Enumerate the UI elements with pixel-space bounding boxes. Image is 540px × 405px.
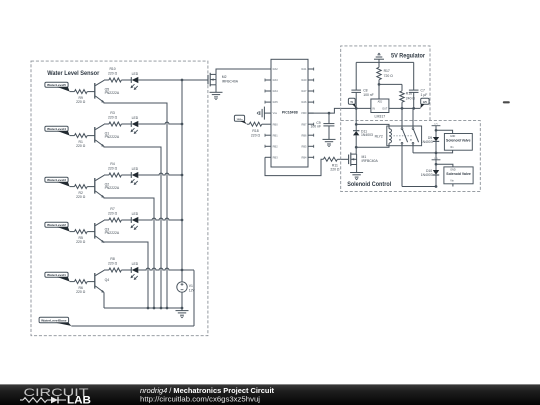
svg-text:Water Level Sensor: Water Level Sensor: [47, 70, 100, 77]
svg-text:220 Ω: 220 Ω: [76, 195, 86, 199]
svg-text:RB3: RB3: [273, 155, 279, 159]
svg-text:WaterLevelBase: WaterLevelBase: [41, 318, 67, 322]
svg-text:220 Ω: 220 Ω: [108, 71, 118, 75]
svg-text:WaterLevel2: WaterLevel2: [47, 223, 66, 227]
svg-text:220 Ω: 220 Ω: [108, 115, 118, 119]
svg-text:220 Ω: 220 Ω: [76, 144, 86, 148]
svg-text:R17: R17: [384, 69, 390, 73]
svg-text:PN2222A: PN2222A: [105, 231, 120, 235]
svg-text:RA2: RA2: [273, 67, 279, 71]
svg-text:RLY2: RLY2: [375, 134, 383, 138]
svg-text:IRFBC40A: IRFBC40A: [362, 159, 379, 163]
svg-text:RB1: RB1: [273, 133, 279, 137]
svg-text:RA4: RA4: [273, 89, 279, 93]
svg-text:WaterLevel5: WaterLevel5: [47, 83, 66, 87]
svg-text:RB4: RB4: [301, 155, 307, 159]
svg-text:220 Ω: 220 Ω: [108, 166, 118, 170]
svg-text:100 nF: 100 nF: [363, 93, 374, 97]
svg-text:LM317: LM317: [375, 114, 386, 118]
svg-text:R4: R4: [110, 162, 114, 166]
svg-text:1N4003: 1N4003: [361, 133, 373, 137]
svg-text:RB7: RB7: [301, 122, 307, 126]
svg-text:12Vin: 12Vin: [237, 119, 244, 121]
svg-text:LED: LED: [132, 167, 139, 171]
svg-text:OUT: OUT: [382, 108, 388, 111]
svg-text:http://circuitlab.com/cx6gs3xz: http://circuitlab.com/cx6gs3xz5hvuj: [140, 395, 260, 404]
svg-text:PIC16F88: PIC16F88: [282, 111, 298, 115]
svg-text:RB6: RB6: [301, 133, 307, 137]
svg-text:R8: R8: [110, 257, 114, 261]
svg-text:220 Ω: 220 Ω: [108, 211, 118, 215]
svg-text:720 Ω: 720 Ω: [384, 74, 394, 78]
svg-text:R10: R10: [109, 67, 115, 71]
svg-text:12V: 12V: [423, 101, 428, 104]
svg-text:1N4003: 1N4003: [421, 140, 433, 144]
svg-text:IN: IN: [373, 108, 376, 111]
svg-text:RB2: RB2: [273, 144, 279, 148]
svg-text:PN2222A: PN2222A: [105, 186, 120, 190]
svg-text:WaterLevel3: WaterLevel3: [47, 178, 66, 182]
svg-text:220 Ω: 220 Ω: [251, 133, 261, 137]
svg-text:LED: LED: [132, 262, 139, 266]
svg-text:RB5: RB5: [301, 144, 307, 148]
svg-text:220 Ω: 220 Ω: [108, 261, 118, 265]
svg-text:WaterLevel1: WaterLevel1: [47, 273, 66, 277]
svg-text:100 nF: 100 nF: [311, 125, 322, 129]
svg-text:nrodrig4 / Mechatronics Projec: nrodrig4 / Mechatronics Project Circuit: [140, 386, 275, 395]
svg-text:5V: 5V: [351, 101, 354, 104]
svg-text:RA6: RA6: [301, 100, 307, 104]
svg-text:1 µF: 1 µF: [421, 93, 428, 97]
svg-text:1N4003: 1N4003: [421, 173, 433, 177]
svg-text:LED: LED: [132, 72, 139, 76]
svg-text:Solenoid Valve: Solenoid Valve: [446, 139, 471, 143]
svg-text:RA3: RA3: [273, 78, 279, 82]
svg-text:R7: R7: [110, 207, 114, 211]
svg-text:220 Ω: 220 Ω: [76, 100, 86, 104]
svg-text:ADJ: ADJ: [378, 100, 383, 103]
svg-text:Vss: Vss: [273, 111, 278, 115]
svg-text:220 Ω: 220 Ω: [76, 290, 86, 294]
svg-text:LED: LED: [132, 116, 139, 120]
svg-text:RA7: RA7: [301, 89, 307, 93]
svg-text:IRFBC40A: IRFBC40A: [222, 79, 239, 83]
svg-text:Solenoid Control: Solenoid Control: [347, 181, 391, 188]
svg-text:RA5: RA5: [273, 100, 279, 104]
svg-text:Solenoid Valve: Solenoid Valve: [446, 172, 471, 176]
svg-text:220 Ω: 220 Ω: [76, 240, 86, 244]
svg-text:220 Ω: 220 Ω: [330, 168, 340, 172]
svg-text:LAB: LAB: [67, 395, 91, 405]
svg-text:R3: R3: [110, 111, 114, 115]
svg-text:RA0: RA0: [301, 78, 307, 82]
svg-text:WaterLevel4: WaterLevel4: [47, 127, 66, 131]
svg-text:RA1: RA1: [301, 67, 307, 71]
svg-text:Q4: Q4: [105, 278, 110, 282]
svg-text:VDD: VDD: [301, 111, 307, 115]
svg-text:RB0: RB0: [273, 122, 279, 126]
svg-text:PN2222A: PN2222A: [105, 91, 120, 95]
svg-text:5V Regulator: 5V Regulator: [391, 52, 426, 59]
svg-text:PN2222A: PN2222A: [105, 135, 120, 139]
svg-text:LED: LED: [132, 212, 139, 216]
